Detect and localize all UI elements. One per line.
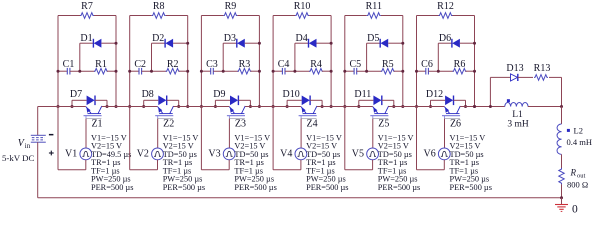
node stage 6 left vertical to rail junction dot — [415, 105, 476, 108]
svg-text:R8: R8 — [153, 1, 165, 12]
resistor R12 — [437, 1, 454, 18]
svg-text:C1: C1 — [63, 59, 75, 70]
stage 3 box left wire — [200, 16, 202, 107]
resistor R4 — [285, 59, 331, 74]
inductor L2 0.4 mH — [557, 107, 592, 155]
capacitor C2 — [130, 59, 146, 75]
svg-text:PER=500 µs: PER=500 µs — [91, 183, 133, 192]
stage 1 box right wire — [115, 16, 117, 107]
svg-text:R7: R7 — [81, 1, 93, 12]
stage 2 box top wire — [130, 15, 188, 17]
svg-text:5-kV DC: 5-kV DC — [2, 153, 34, 163]
svg-text:PER=500 µs: PER=500 µs — [306, 183, 348, 192]
stage 5 box left wire — [344, 16, 346, 107]
stage 1 box left wire — [57, 16, 59, 107]
diode D5 — [367, 33, 403, 48]
node bypass D7 junction dots — [71, 105, 109, 108]
wire V2 return to emitter rail — [130, 107, 158, 170]
svg-text:D11: D11 — [354, 89, 371, 100]
svg-text:V1: V1 — [65, 149, 77, 160]
wire D3 anode junction dot — [258, 42, 261, 45]
capacitor C6 — [417, 59, 433, 75]
node stage 3 left vertical to rail junction dot — [200, 105, 261, 108]
svg-text:C3: C3 — [206, 59, 218, 70]
node bypass D8 junction dots — [142, 105, 180, 108]
diode D2 — [152, 33, 188, 48]
node C5-R5 row junction dots — [343, 70, 404, 73]
svg-text:R10: R10 — [294, 1, 311, 12]
value labels V3 parameters — [234, 133, 276, 191]
stage 3 box right wire — [258, 16, 260, 107]
svg-text:PER=500 µs: PER=500 µs — [163, 183, 205, 192]
wire from D3 down to C3/R3 node — [222, 43, 224, 71]
ground 0 — [555, 198, 578, 216]
svg-text:R3: R3 — [239, 59, 251, 70]
stage 4 box left wire — [272, 16, 274, 107]
node output to bottom rail junction dot — [560, 196, 563, 199]
svg-text:V2: V2 — [137, 149, 149, 160]
wire V4 return to emitter rail — [273, 107, 301, 170]
svg-text:D4: D4 — [295, 33, 307, 44]
battery Vin 5-kV DC — [2, 107, 54, 198]
transistor Z4 (IGBT) — [299, 106, 318, 130]
wire from D2 down to C2/R2 node — [151, 43, 153, 71]
value labels V6 parameters — [450, 133, 492, 191]
wire main rail segment Z1 collector to Z2 emitter — [102, 106, 158, 108]
diode D8 anti-parallel bypass — [142, 89, 179, 107]
wire D6 anode junction dot — [473, 42, 476, 45]
diode D9 anti-parallel bypass — [213, 89, 250, 107]
diode D4 — [295, 33, 331, 48]
stage 6 box left wire — [416, 16, 418, 107]
wire D5 anode junction dot — [401, 42, 404, 45]
wire gate of Z2 down to V2 — [157, 119, 159, 149]
wire D4 anode junction dot — [330, 42, 333, 45]
diode D11 anti-parallel bypass — [354, 89, 393, 107]
svg-text:in: in — [25, 142, 31, 150]
stage 2 box left wire — [129, 16, 131, 107]
node C3-R3 row junction dots — [200, 70, 261, 73]
node C1-R1 row junction dots — [57, 70, 118, 73]
wire bottom return rail — [38, 197, 562, 199]
wire gate of Z3 down to V3 — [228, 119, 230, 149]
wire V6 return to emitter rail — [417, 107, 445, 170]
svg-text:D1: D1 — [80, 33, 92, 44]
svg-text:C5: C5 — [349, 59, 361, 70]
stage 5 box top wire — [345, 15, 403, 17]
svg-text:R11: R11 — [366, 1, 382, 12]
transistor Z2 (IGBT) — [155, 106, 174, 130]
resistor R1 — [70, 59, 116, 74]
resistor R8 — [152, 1, 166, 18]
svg-text:Z2: Z2 — [163, 119, 174, 130]
node stage 5 left vertical to rail junction dot — [343, 105, 404, 108]
resistor R2 — [142, 59, 188, 74]
stage 5 box right wire — [402, 16, 404, 107]
pulse source V6 — [424, 148, 451, 160]
diode D1 — [80, 33, 116, 48]
transistor Z6 (IGBT) — [442, 106, 461, 130]
wire from D4 down to C4/R4 node — [294, 43, 296, 71]
wire gate of Z4 down to V4 — [300, 119, 302, 149]
diode D10 anti-parallel bypass — [282, 89, 322, 107]
svg-text:R2: R2 — [167, 59, 179, 70]
wire V5 return to emitter rail — [345, 107, 373, 170]
svg-text:V5: V5 — [352, 149, 364, 160]
wire D1 anode junction dot — [115, 42, 118, 45]
wire gate of Z5 down to V5 — [372, 119, 374, 149]
svg-text:C2: C2 — [134, 59, 146, 70]
svg-text:R6: R6 — [454, 59, 466, 70]
svg-text:Z6: Z6 — [450, 119, 461, 130]
pulse source V5 — [352, 148, 379, 160]
pulse source V2 — [137, 148, 164, 160]
resistor R7 — [80, 1, 94, 18]
diode D3 — [223, 33, 259, 48]
node stage 1 left vertical to rail junction dot — [57, 105, 118, 108]
stage 1 box top wire — [58, 15, 116, 17]
resistor R10 — [294, 1, 311, 18]
svg-text:V4: V4 — [280, 149, 292, 160]
svg-text:R12: R12 — [437, 1, 454, 12]
node bypass D11 junction dots — [357, 105, 395, 108]
svg-text:D3: D3 — [224, 33, 236, 44]
wire main rail segment Z3 collector to Z4 emitter — [245, 106, 301, 108]
svg-text:C4: C4 — [278, 59, 290, 70]
svg-text:D2: D2 — [152, 33, 164, 44]
svg-text:D13: D13 — [506, 63, 523, 74]
svg-text:out: out — [577, 173, 586, 180]
wire main rail segment Z2 collector to Z3 emitter — [173, 106, 229, 108]
svg-text:R13: R13 — [534, 63, 551, 74]
pulse source V1 — [65, 148, 92, 160]
svg-text:3 mH: 3 mH — [507, 120, 529, 130]
capacitor C3 — [201, 59, 217, 75]
node branch tap junction dots — [473, 105, 492, 108]
wire V1 return to emitter rail — [58, 107, 86, 170]
resistor Rout 800 ohm — [559, 154, 588, 197]
resistor R11 — [366, 1, 382, 18]
svg-text:PER=500 µs: PER=500 µs — [378, 183, 420, 192]
stage 4 box top wire — [273, 15, 331, 17]
pulse source V3 — [208, 148, 235, 160]
stage 4 box right wire — [330, 16, 332, 107]
svg-text:D5: D5 — [367, 33, 379, 44]
svg-text:D6: D6 — [439, 33, 451, 44]
svg-text:D9: D9 — [213, 89, 225, 100]
node C2-R2 row junction dots — [128, 70, 189, 73]
wire snubber branch right drop — [561, 77, 563, 106]
resistor R3 — [213, 59, 259, 74]
stage 2 box right wire — [187, 16, 189, 107]
wire main rail left segment from battery to Z1 emitter — [38, 106, 86, 108]
pulse source V4 — [280, 148, 307, 160]
wire from D6 down to C6/R6 node — [437, 43, 439, 71]
svg-text:800 Ω: 800 Ω — [567, 180, 588, 190]
svg-text:PER=500 µs: PER=500 µs — [450, 183, 492, 192]
svg-text:V3: V3 — [208, 149, 220, 160]
node C6-R6 row junction dots — [415, 70, 476, 73]
svg-text:0.4 mH: 0.4 mH — [567, 137, 593, 147]
diode D7 anti-parallel bypass — [70, 89, 107, 107]
wire main rail segment Z6 collector to L1 — [460, 106, 505, 108]
svg-text:Z1: Z1 — [91, 119, 102, 130]
node stage 2 left vertical to rail junction dot — [128, 105, 189, 108]
capacitor C1 — [58, 59, 74, 75]
node bypass D10 junction dots — [286, 105, 324, 108]
wire gate of Z1 down to V1 — [85, 119, 87, 149]
svg-text:R1: R1 — [95, 59, 107, 70]
svg-text:R5: R5 — [382, 59, 394, 70]
value labels V1 parameters — [91, 133, 133, 191]
svg-text:V6: V6 — [424, 149, 436, 160]
diode D12 anti-parallel bypass — [426, 89, 466, 107]
node stage 4 left vertical to rail junction dot — [272, 105, 333, 108]
svg-text:Z4: Z4 — [307, 119, 318, 130]
svg-text:R9: R9 — [225, 1, 237, 12]
svg-text:Z5: Z5 — [378, 119, 389, 130]
svg-text:R4: R4 — [310, 59, 322, 70]
diode D13 — [506, 63, 523, 81]
transistor Z1 (IGBT) — [84, 106, 103, 130]
wire from D5 down to C5/R5 node — [366, 43, 368, 71]
svg-text:D10: D10 — [282, 89, 299, 100]
stage 6 box top wire — [417, 15, 475, 17]
transistor Z5 (IGBT) — [370, 106, 389, 130]
value labels V2 parameters — [163, 133, 205, 191]
wire snubber branch riser — [490, 77, 510, 106]
wire V3 return to emitter rail — [201, 107, 229, 170]
value labels V5 parameters — [378, 133, 420, 191]
svg-text:D7: D7 — [70, 89, 82, 100]
node C4-R4 row junction dots — [272, 70, 333, 73]
svg-text:D8: D8 — [142, 89, 154, 100]
resistor R6 — [428, 59, 474, 74]
node bypass D12 junction dots — [429, 105, 467, 108]
wire main rail segment Z5 collector to Z6 emitter — [389, 106, 445, 108]
wire D2 anode junction dot — [186, 42, 189, 45]
wire from D1 down to C1/R1 node — [79, 43, 81, 71]
svg-text:D12: D12 — [426, 89, 443, 100]
wire main rail segment Z4 collector to Z5 emitter — [317, 106, 373, 108]
stage 3 box top wire — [201, 15, 259, 17]
svg-text:R: R — [570, 168, 577, 178]
wire gate of Z6 down to V6 — [444, 119, 446, 149]
stage 6 box right wire — [474, 16, 476, 107]
capacitor C5 — [345, 59, 361, 75]
wire L1 to output node — [528, 105, 563, 108]
transistor Z3 (IGBT) — [227, 106, 246, 130]
value labels V4 parameters — [306, 133, 348, 191]
node bypass D9 junction dots — [214, 105, 252, 108]
svg-text:L2: L2 — [574, 126, 583, 136]
svg-text:0: 0 — [572, 203, 578, 213]
resistor R5 — [357, 59, 403, 74]
svg-text:C6: C6 — [421, 59, 433, 70]
capacitor C4 — [273, 59, 289, 75]
resistor R9 — [223, 1, 237, 18]
svg-text:PER=500 µs: PER=500 µs — [234, 183, 276, 192]
svg-text:Z3: Z3 — [235, 119, 246, 130]
svg-text:L1: L1 — [512, 110, 523, 120]
inductor L1 3 mH — [505, 99, 529, 129]
diode D6 — [438, 33, 474, 48]
resistor R13 — [518, 63, 562, 80]
